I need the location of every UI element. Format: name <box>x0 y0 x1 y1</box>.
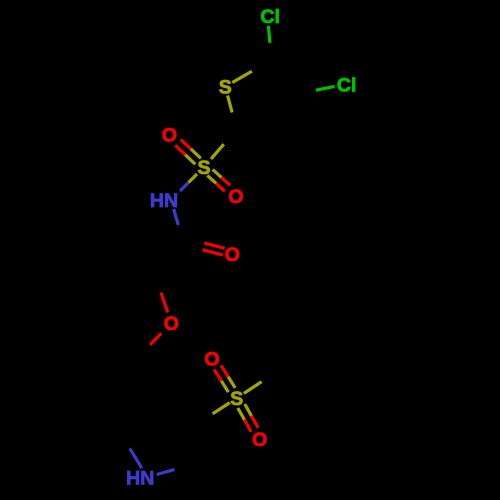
wire: C3p-S5 sulfone bond (S half) <box>213 403 230 414</box>
wire: C6=O5 carbonyl double bond (O halves) <box>203 250 223 255</box>
wire: C7-O6 ether bond (O half) <box>161 293 168 313</box>
svg-text:HN: HN <box>126 467 154 489</box>
wire: S5=O3 double bond <box>228 377 235 388</box>
wire: S3=O2 double bond <box>207 175 216 183</box>
svg-text:Cl: Cl <box>260 6 280 28</box>
wire: S5-C9 methyl bond (S half) <box>244 382 262 394</box>
wire: thiophene S1-C5 bond (S half) <box>232 71 252 82</box>
wire: S5=O4 double bond <box>238 408 245 420</box>
wire: C2-S3 sulfonamide bond (S half) <box>211 144 224 159</box>
svg-text:HN: HN <box>150 190 178 212</box>
svg-text:O: O <box>225 244 240 266</box>
wire: C5-Cl1 bond (Cl half) <box>268 26 270 43</box>
svg-text:O: O <box>252 429 267 451</box>
wire: N1p-C5p pyrrolidine bond (N half) <box>130 448 142 468</box>
svg-text:O: O <box>204 349 219 371</box>
svg-text:O: O <box>228 186 243 208</box>
svg-text:S: S <box>197 157 210 179</box>
wire: N4-C6 amide bond (N half) <box>174 209 179 225</box>
wire: S3=O1 double bond <box>191 149 201 159</box>
wire: O6-C8 ether bond (O half) <box>150 333 161 345</box>
svg-text:S: S <box>219 77 232 99</box>
wire: N1p-C2p pyrrolidine bond (N half) <box>157 470 175 475</box>
svg-text:Cl: Cl <box>337 75 357 97</box>
wire: thiophene S1-C2 bond (S half) <box>228 96 233 113</box>
svg-text:O: O <box>162 124 177 146</box>
svg-text:S: S <box>230 388 243 410</box>
svg-text:O: O <box>164 313 179 335</box>
wire: C4-Cl2 bond (Cl half) <box>316 86 335 90</box>
wire: S3-N4 bond <box>189 174 198 183</box>
